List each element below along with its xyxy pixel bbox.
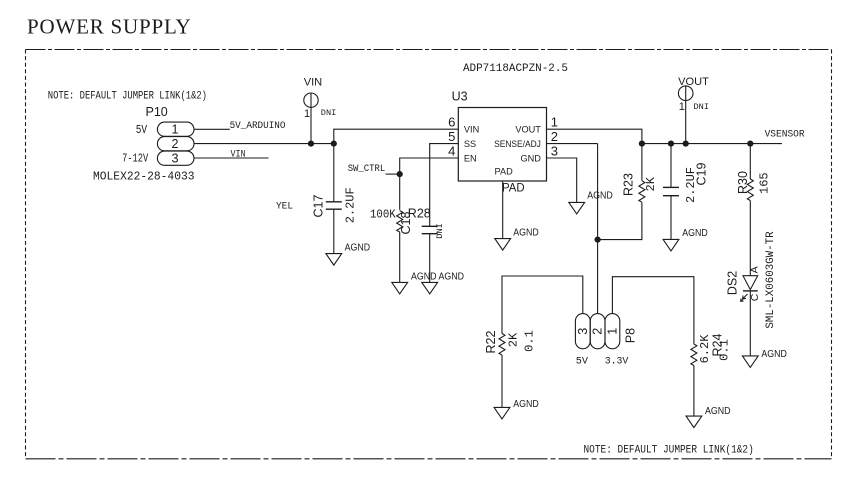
resistor R30 [736,144,771,276]
wire P10 pin3 to VIN [194,157,269,159]
svg-text:AGND: AGND [587,191,613,202]
svg-text:3: 3 [576,328,590,335]
svg-text:NOTE: DEFAULT JUMPER LINK(1&2): NOTE: DEFAULT JUMPER LINK(1&2) [584,445,754,457]
svg-text:VIN: VIN [304,77,323,89]
svg-text:VIN: VIN [464,125,479,135]
ground AGND PAD [495,228,539,250]
capacitor C18 [399,212,445,283]
svg-text:5V: 5V [576,355,589,367]
svg-text:2K: 2K [644,176,658,191]
border frame top [26,49,832,51]
border frame right [831,50,833,459]
svg-text:6: 6 [448,114,455,129]
junction VOUT drop [683,141,689,147]
svg-text:SENSE/ADJ: SENSE/ADJ [494,139,541,149]
border frame left [25,50,27,459]
ground AGND C19 [663,228,708,251]
terminal VOUT [678,76,709,144]
wire P10 pin1 to 5V_ARDUINO [194,128,230,130]
svg-text:GND: GND [520,153,541,163]
wire sense drop [598,144,642,240]
svg-text:1: 1 [551,114,558,129]
svg-text:AGND: AGND [513,228,539,239]
wire P8 pin2 up [597,240,599,314]
svg-text:7-12V: 7-12V [122,152,149,166]
svg-text:NOTE: DEFAULT JUMPER LINK(1&2): NOTE: DEFAULT JUMPER LINK(1&2) [48,90,207,102]
svg-text:DNI: DNI [435,223,445,238]
svg-text:P10: P10 [146,105,168,119]
svg-text:SML-LX0603GW-TR: SML-LX0603GW-TR [765,231,777,329]
svg-text:3: 3 [171,152,178,166]
resistor R22 [484,330,537,407]
svg-text:VOUT: VOUT [515,125,541,135]
svg-text:C: C [749,293,761,301]
ground AGND pin3 [569,191,613,214]
svg-text:DS2: DS2 [726,271,740,295]
svg-text:R30: R30 [736,171,750,194]
svg-text:2: 2 [171,137,178,151]
svg-text:P8: P8 [624,328,638,343]
wire main output line to VSENSOR [642,143,782,145]
junction C19 top [668,141,674,147]
svg-text:AGND AGND: AGND AGND [411,271,464,282]
wire U3 PAD to ground [502,181,504,239]
svg-text:0.1: 0.1 [718,339,732,361]
resistor R28 [370,207,431,283]
svg-text:DNI: DNI [694,102,709,112]
ground AGND DS2 [742,349,787,368]
wire U3 pin2 SENSE to drop [547,143,598,145]
capacitor C17 [276,144,358,254]
svg-text:POWER SUPPLY: POWER SUPPLY [27,15,191,39]
IC U3 ADP7118ACPZN-2.5 [448,63,568,195]
jumper P8 [575,314,637,368]
svg-text:AGND: AGND [705,406,731,417]
svg-text:SW_CTRL: SW_CTRL [348,163,386,175]
junction R23 top [639,141,645,147]
svg-text:PAD: PAD [495,166,514,176]
wire P8 pin3 to R22 [502,276,583,334]
svg-text:AGND: AGND [513,399,539,410]
svg-text:C19: C19 [695,163,709,186]
svg-text:AGND: AGND [761,349,787,360]
junction sense bottom [595,237,601,243]
wire P10 pin2 main bus [194,129,458,143]
svg-text:3.3V: 3.3V [605,355,629,367]
svg-text:2K: 2K [507,332,521,347]
svg-text:A: A [749,266,761,273]
svg-text:1: 1 [679,101,685,113]
svg-text:PAD: PAD [502,181,525,195]
wire U3 pin1 VOUT [547,129,642,143]
svg-text:SS: SS [464,139,476,149]
svg-text:YEL: YEL [276,200,293,212]
ground AGND C18 [422,282,438,294]
svg-text:AGND: AGND [682,228,708,239]
svg-text:R23: R23 [622,173,636,196]
svg-text:VSENSOR: VSENSOR [765,128,806,140]
svg-text:0.1: 0.1 [523,330,537,352]
svg-text:2: 2 [591,328,605,335]
svg-text:R22: R22 [484,330,498,353]
svg-text:AGND: AGND [345,242,371,253]
svg-text:U3: U3 [452,90,468,104]
ground AGND R24 [686,406,731,428]
svg-text:4: 4 [448,143,455,158]
svg-text:ADP7118ACPZN-2.5: ADP7118ACPZN-2.5 [463,63,568,75]
junction at VIN drop [308,141,314,147]
wire U3 pin4 to SW_CTRL node [400,158,459,210]
wire U3 pin5 to C18 [430,144,459,227]
svg-text:1: 1 [304,108,310,120]
capacitor C19 [663,144,709,240]
svg-text:3: 3 [551,143,558,158]
svg-text:2: 2 [551,129,558,144]
ground AGND R28 [392,282,408,294]
ground AGND R22 [494,399,539,419]
resistor R24 [691,333,732,416]
svg-text:100K: 100K [370,209,396,222]
DS2 emission arrows [743,294,748,299]
wire U3 pin3 GND to ground [547,158,577,202]
terminal VIN [304,77,337,144]
svg-text:5: 5 [448,129,455,144]
LED DS2 [726,231,777,356]
node SW_CTRL [348,163,403,177]
svg-text:2.2UF: 2.2UF [344,187,358,223]
svg-text:165: 165 [758,172,772,194]
svg-text:C18: C18 [399,212,413,235]
svg-text:5V: 5V [136,123,148,137]
junction at bus corner C17 [331,141,337,147]
svg-text:MOLEX22-28-4033: MOLEX22-28-4033 [93,169,195,183]
svg-text:VIN: VIN [231,148,246,160]
border frame bottom [26,458,832,460]
U3 body [458,108,546,182]
svg-text:5V_ARDUINO: 5V_ARDUINO [230,120,286,132]
resistor R23 [622,144,659,203]
ground AGND C17 [326,242,370,265]
wire P8 pin1 to R24 [612,277,694,344]
junction R30 top [747,141,753,147]
svg-text:EN: EN [464,153,477,163]
svg-text:1: 1 [605,328,619,335]
connector P10 [93,105,195,184]
svg-text:DNI: DNI [321,108,336,118]
svg-text:1: 1 [171,123,178,137]
svg-text:C17: C17 [312,195,326,218]
